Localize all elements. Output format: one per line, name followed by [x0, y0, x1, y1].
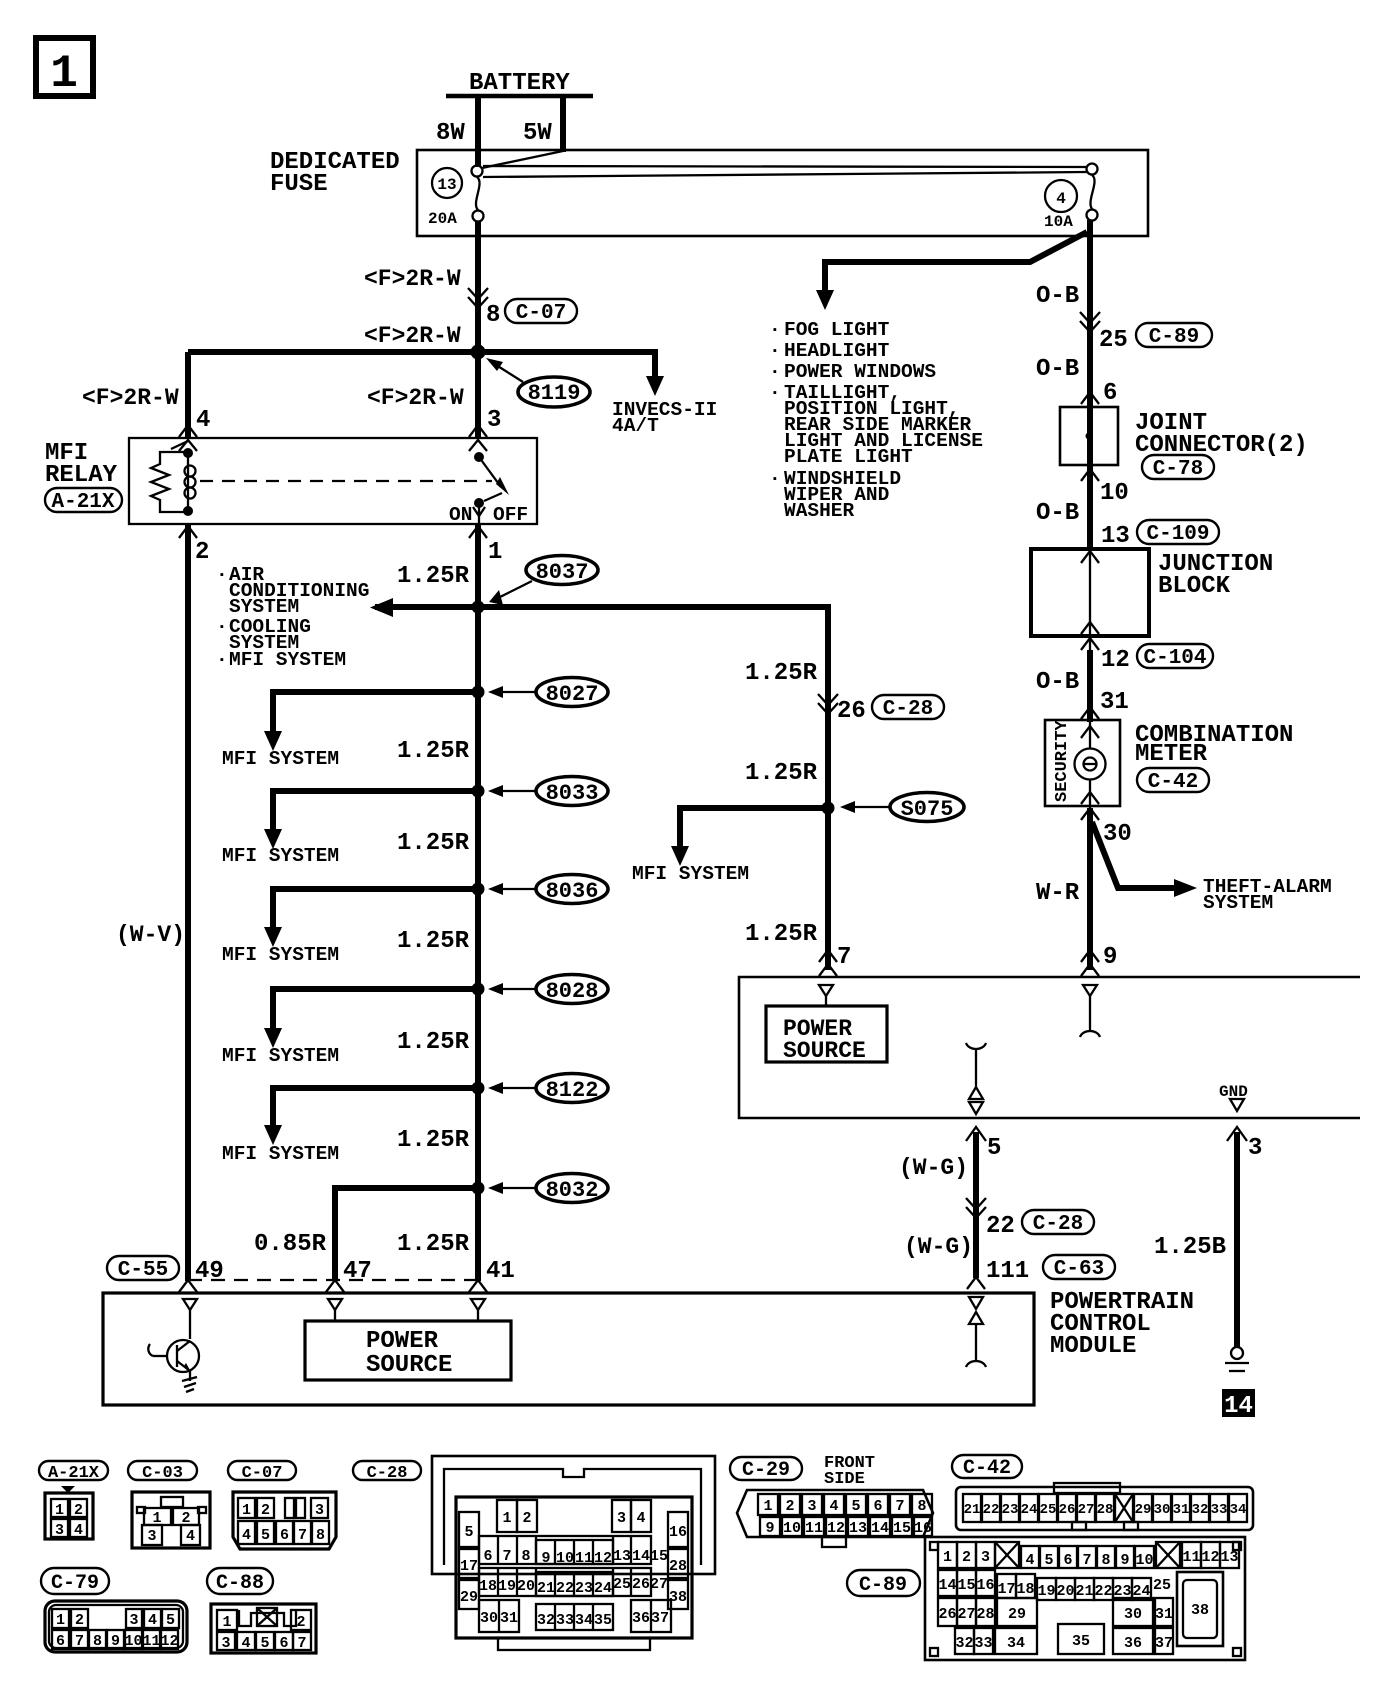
svg-text:2: 2 — [522, 1510, 531, 1527]
svg-text:17: 17 — [997, 1581, 1015, 1598]
svg-text:34: 34 — [575, 1612, 593, 1629]
svg-text:33: 33 — [974, 1635, 992, 1652]
svg-text:7: 7 — [837, 944, 851, 971]
connector label C-88 — [207, 1568, 273, 1595]
svg-text:25: 25 — [1040, 1502, 1057, 1518]
svg-text:10: 10 — [783, 1520, 801, 1537]
C-55 connector dashed line — [188, 1279, 478, 1281]
svg-text:2: 2 — [785, 1498, 794, 1515]
svg-text:7: 7 — [298, 1527, 307, 1544]
MFI relay U1 box — [129, 438, 537, 524]
svg-text:C-03: C-03 — [142, 1464, 183, 1483]
svg-text:1.25R: 1.25R — [397, 738, 470, 765]
node S028 branch — [222, 975, 608, 1068]
svg-text:<F>2R-W: <F>2R-W — [82, 385, 179, 411]
svg-text:8027: 8027 — [546, 682, 599, 707]
svg-text:12: 12 — [1201, 1549, 1219, 1566]
node S033 branch — [222, 777, 608, 868]
svg-text:31: 31 — [1100, 689, 1129, 716]
dedicated fuse box — [417, 150, 1148, 236]
svg-text:17: 17 — [460, 1558, 478, 1575]
svg-text:9: 9 — [111, 1633, 120, 1650]
wire W-V relay pin2 to C-55 pin 49 — [185, 524, 191, 1281]
connector label C-63 — [1043, 1255, 1115, 1281]
svg-text:10: 10 — [1100, 480, 1129, 507]
svg-text:1.25R: 1.25R — [397, 928, 470, 955]
svg-text:O-B: O-B — [1036, 283, 1079, 310]
svg-text:5: 5 — [464, 1524, 473, 1541]
wire battery 8W — [475, 96, 481, 167]
svg-text:22: 22 — [983, 1502, 1000, 1518]
svg-text:14: 14 — [938, 1577, 956, 1594]
svg-text:(W-V): (W-V) — [116, 922, 185, 948]
splice S037 — [489, 556, 598, 606]
power source inner box lower — [305, 1321, 511, 1380]
svg-text:1.25R: 1.25R — [397, 563, 470, 590]
svg-text:C-78: C-78 — [1153, 458, 1203, 481]
svg-text:PLATE LIGHT: PLATE LIGHT — [784, 446, 913, 468]
svg-text:C-07: C-07 — [516, 302, 566, 325]
svg-text:1.25R: 1.25R — [397, 1029, 470, 1056]
svg-text:3: 3 — [981, 1549, 990, 1566]
svg-text:O-B: O-B — [1036, 500, 1079, 527]
node S032 branch to pin 47 — [254, 1174, 608, 1282]
svg-text:35: 35 — [1072, 1633, 1090, 1650]
svg-text:3: 3 — [617, 1510, 626, 1527]
svg-text:28: 28 — [1097, 1502, 1114, 1518]
svg-text:8122: 8122 — [546, 1078, 599, 1103]
svg-text:7: 7 — [895, 1498, 904, 1515]
node S027 branch — [222, 678, 608, 771]
svg-text:23: 23 — [575, 1580, 593, 1597]
svg-text:32: 32 — [1192, 1502, 1209, 1518]
svg-text:1.25R: 1.25R — [745, 921, 818, 948]
svg-text:3: 3 — [315, 1502, 324, 1519]
svg-text:POWER: POWER — [366, 1328, 439, 1355]
svg-text:MFI SYSTEM: MFI SYSTEM — [632, 863, 749, 885]
svg-text:SOURCE: SOURCE — [366, 1352, 452, 1379]
svg-text:10: 10 — [556, 1550, 574, 1567]
wire 2R-W to relay pin 3 — [475, 352, 481, 438]
connector label C-109 — [1137, 520, 1219, 546]
node main power bus — [188, 349, 655, 355]
powertrain control module box — [103, 1293, 1034, 1405]
svg-text:10A: 10A — [1044, 213, 1073, 231]
svg-text:C-63: C-63 — [1054, 1258, 1104, 1281]
wire O-B junction block to meter — [1087, 650, 1093, 722]
svg-text:30: 30 — [1103, 821, 1132, 848]
svg-text:111: 111 — [986, 1258, 1029, 1285]
svg-text:·: · — [769, 468, 781, 490]
wire branch to INVECS — [652, 349, 658, 380]
pin 6 caret — [1081, 392, 1099, 404]
relay coil — [185, 466, 196, 499]
svg-text:7: 7 — [297, 1635, 306, 1652]
bus bar link 5W to fuse 13 — [482, 151, 563, 168]
svg-text:RELAY: RELAY — [45, 462, 118, 489]
joint connector box — [1060, 407, 1118, 465]
svg-text:34: 34 — [1230, 1502, 1247, 1518]
svg-text:FOG LIGHT: FOG LIGHT — [784, 319, 890, 341]
pin 10 caret — [1081, 469, 1099, 481]
svg-text:21: 21 — [537, 1580, 555, 1597]
svg-text:7: 7 — [502, 1548, 511, 1565]
svg-text:MFI SYSTEM: MFI SYSTEM — [222, 1143, 339, 1165]
svg-text:1.25R: 1.25R — [397, 1231, 470, 1258]
svg-text:3: 3 — [129, 1612, 138, 1629]
svg-text:15: 15 — [893, 1520, 911, 1537]
svg-text:·: · — [216, 564, 228, 586]
svg-text:6: 6 — [280, 1527, 289, 1544]
svg-text:<F>2R-W: <F>2R-W — [367, 385, 464, 411]
svg-text:11: 11 — [142, 1633, 160, 1650]
svg-text:1.25R: 1.25R — [397, 1127, 470, 1154]
svg-text:HEADLIGHT: HEADLIGHT — [784, 340, 890, 362]
svg-text:8028: 8028 — [546, 979, 599, 1004]
connector label C-89 — [1136, 323, 1212, 349]
svg-text:8: 8 — [486, 302, 500, 329]
svg-text:7: 7 — [1082, 1552, 1091, 1569]
combination meter security box — [1045, 720, 1120, 806]
svg-text:C-28: C-28 — [367, 1464, 408, 1483]
svg-text:·: · — [769, 319, 781, 341]
svg-text:C-28: C-28 — [1033, 1213, 1083, 1236]
svg-text:12: 12 — [594, 1550, 612, 1567]
svg-text:11: 11 — [575, 1550, 593, 1567]
svg-text:13: 13 — [1101, 523, 1130, 550]
svg-text:C-29: C-29 — [742, 1459, 790, 1482]
relay switch — [449, 440, 528, 526]
connector label C-07 — [228, 1461, 296, 1483]
connector C-55 row — [107, 1256, 179, 1282]
svg-text:·: · — [769, 382, 781, 404]
svg-text:C-89: C-89 — [1149, 326, 1199, 349]
transistor Q1 — [148, 1340, 199, 1392]
svg-text:SECURITY: SECURITY — [1053, 720, 1072, 802]
svg-text:5: 5 — [260, 1635, 269, 1652]
svg-text:FUSE: FUSE — [270, 171, 328, 198]
svg-text:37: 37 — [1155, 1635, 1173, 1652]
svg-text:C-07: C-07 — [242, 1464, 283, 1483]
svg-text:BLOCK: BLOCK — [1158, 573, 1231, 600]
svg-text:3: 3 — [807, 1498, 816, 1515]
svg-text:8: 8 — [521, 1548, 530, 1565]
svg-text:29: 29 — [1008, 1606, 1026, 1623]
svg-text:4: 4 — [636, 1510, 645, 1527]
svg-text:6: 6 — [56, 1633, 65, 1650]
svg-text:8037: 8037 — [536, 560, 589, 585]
connector C-42 pinout — [956, 1483, 1253, 1530]
connector C-07 crossing — [468, 288, 488, 308]
svg-text:·: · — [216, 616, 228, 638]
svg-text:A-21X: A-21X — [51, 491, 114, 514]
branch to theft-alarm — [1092, 822, 1176, 888]
fuse 13 element — [472, 166, 484, 222]
svg-text:4: 4 — [829, 1498, 838, 1515]
svg-text:29: 29 — [460, 1589, 478, 1606]
svg-text:9: 9 — [1103, 944, 1117, 971]
svg-text:WASHER: WASHER — [784, 500, 855, 522]
connector C-89 crossing — [1080, 312, 1100, 332]
svg-text:1: 1 — [943, 1549, 952, 1566]
svg-text:31: 31 — [1173, 1502, 1190, 1518]
connector C-29 pinout — [737, 1490, 933, 1547]
svg-text:29: 29 — [1135, 1502, 1152, 1518]
svg-text:O-B: O-B — [1036, 356, 1079, 383]
svg-text:23: 23 — [1002, 1502, 1019, 1518]
svg-text:3: 3 — [221, 1635, 230, 1652]
svg-text:OFF: OFF — [493, 504, 528, 526]
svg-text:2: 2 — [75, 1612, 84, 1629]
svg-text:BATTERY: BATTERY — [469, 70, 570, 97]
svg-text:MFI SYSTEM: MFI SYSTEM — [222, 944, 339, 966]
svg-text:4: 4 — [1025, 1552, 1034, 1569]
svg-text:24: 24 — [1021, 1502, 1038, 1518]
svg-text:20: 20 — [517, 1578, 535, 1595]
C-28 left/right columns — [459, 1512, 479, 1547]
connector label A-21X — [39, 1461, 108, 1483]
svg-text:C-89: C-89 — [859, 1574, 907, 1597]
svg-text:5: 5 — [166, 1612, 175, 1629]
svg-text:1: 1 — [242, 1502, 251, 1519]
svg-text:POWER WINDOWS: POWER WINDOWS — [784, 361, 936, 383]
svg-text:12: 12 — [160, 1633, 178, 1650]
power source inner box upper — [766, 1006, 887, 1064]
svg-text:14: 14 — [632, 1548, 650, 1565]
svg-text:6: 6 — [483, 1548, 492, 1565]
svg-text:16: 16 — [976, 1577, 994, 1594]
svg-text:26: 26 — [938, 1606, 956, 1623]
svg-text:8: 8 — [917, 1498, 926, 1515]
svg-text:14: 14 — [1224, 1393, 1253, 1420]
svg-text:12: 12 — [1101, 647, 1130, 674]
pin 9 terminal — [1080, 985, 1100, 1037]
svg-text:41: 41 — [486, 1258, 515, 1285]
connector C-03 pinout — [132, 1492, 210, 1548]
wire battery 5W — [560, 96, 566, 152]
svg-text:16: 16 — [669, 1524, 687, 1541]
pin 49 terminal — [183, 1299, 197, 1339]
svg-text:6: 6 — [1103, 380, 1117, 407]
page number box 1 — [36, 38, 93, 100]
svg-text:8W: 8W — [436, 120, 465, 147]
wire through junction block — [1089, 549, 1091, 720]
wire W-R down to pin 9 — [1087, 808, 1093, 970]
connector label C-42 — [1137, 768, 1209, 794]
svg-text:13: 13 — [613, 1548, 631, 1565]
svg-text:27: 27 — [957, 1606, 975, 1623]
svg-text:24: 24 — [594, 1580, 612, 1597]
svg-text:5: 5 — [851, 1498, 860, 1515]
svg-text:18: 18 — [1016, 1581, 1034, 1598]
svg-text:·: · — [769, 340, 781, 362]
svg-text:11: 11 — [805, 1520, 823, 1537]
svg-text:2: 2 — [74, 1502, 83, 1519]
node S075 branch — [632, 793, 964, 886]
svg-text:(W-G): (W-G) — [899, 1155, 968, 1181]
internal connector symbol — [966, 1043, 986, 1114]
svg-text:5: 5 — [1044, 1552, 1053, 1569]
connector C-28 crossing pin 22 — [966, 1198, 986, 1218]
svg-text:22: 22 — [986, 1213, 1015, 1240]
svg-text:20: 20 — [1056, 1583, 1074, 1600]
accessory load list — [769, 319, 983, 522]
page ref 14 — [1222, 1389, 1255, 1420]
svg-text:12: 12 — [827, 1520, 845, 1537]
connector C-79 pinout — [45, 1601, 187, 1652]
connector C-28 pinout — [432, 1456, 715, 1650]
svg-text:MODULE: MODULE — [1050, 1333, 1136, 1360]
svg-text:3: 3 — [487, 407, 501, 434]
svg-text:27: 27 — [650, 1576, 668, 1593]
pin 41 terminal — [471, 1299, 485, 1321]
svg-text:3: 3 — [1248, 1135, 1262, 1162]
svg-text:<F>2R-W: <F>2R-W — [364, 266, 461, 292]
svg-text:4: 4 — [241, 1635, 250, 1652]
svg-text:6: 6 — [1063, 1552, 1072, 1569]
wire 1.25R middle column — [825, 607, 828, 970]
svg-text:O-B: O-B — [1036, 669, 1079, 696]
svg-text:20A: 20A — [428, 210, 457, 228]
svg-text:22: 22 — [556, 1580, 574, 1597]
svg-text:3: 3 — [147, 1528, 156, 1545]
arrow to accessory list — [816, 290, 834, 310]
svg-text:1: 1 — [152, 1510, 161, 1527]
bus bar to fuse 4 — [483, 166, 1087, 167]
wire 2R-W fuse 13 down — [475, 221, 481, 352]
connector label C-89 — [847, 1570, 920, 1597]
svg-text:6: 6 — [279, 1635, 288, 1652]
connector label C-03 — [128, 1461, 197, 1483]
svg-text:S075: S075 — [901, 797, 954, 822]
svg-text:30: 30 — [480, 1610, 498, 1627]
svg-text:METER: METER — [1135, 741, 1208, 768]
relay pin 2 — [179, 526, 197, 538]
svg-text:25: 25 — [1153, 1577, 1171, 1594]
svg-text:8: 8 — [93, 1633, 102, 1650]
svg-text:10: 10 — [1135, 1552, 1153, 1569]
svg-text:1: 1 — [488, 539, 502, 566]
C-28 row 2 — [479, 1536, 651, 1564]
svg-text:30: 30 — [1154, 1502, 1171, 1518]
svg-text:37: 37 — [651, 1610, 669, 1627]
svg-text:C-79: C-79 — [51, 1572, 99, 1595]
junction block power source box — [739, 977, 1360, 1118]
fuse 4 element — [1087, 164, 1098, 221]
svg-text:1: 1 — [502, 1510, 511, 1527]
pin 9 caret — [1081, 950, 1099, 962]
connector label C-28 — [353, 1461, 421, 1483]
svg-text:8: 8 — [316, 1527, 325, 1544]
svg-text:21: 21 — [964, 1502, 981, 1518]
svg-text:1: 1 — [55, 1502, 64, 1519]
svg-text:0.85R: 0.85R — [254, 1231, 327, 1258]
relay coil branch — [171, 440, 197, 516]
svg-text:8: 8 — [1101, 1552, 1110, 1569]
svg-text:1.25R: 1.25R — [745, 660, 818, 687]
svg-text:5: 5 — [261, 1527, 270, 1544]
connector A-21X pinout — [45, 1486, 93, 1539]
wire relay pin1 down — [475, 524, 481, 1281]
connector C-88 pinout — [211, 1604, 316, 1653]
svg-text:31: 31 — [500, 1610, 518, 1627]
svg-text:25: 25 — [613, 1576, 631, 1593]
connector C-07 pinout — [233, 1492, 336, 1549]
svg-text:5W: 5W — [523, 120, 552, 147]
svg-text:14: 14 — [871, 1520, 889, 1537]
svg-text:19: 19 — [1037, 1583, 1055, 1600]
wire O-B from fuse 4 down — [1087, 220, 1093, 550]
svg-text:W-R: W-R — [1036, 880, 1080, 907]
pin 7 caret — [819, 950, 837, 962]
connector C-89 pinout — [925, 1537, 1245, 1660]
svg-text:1.25B: 1.25B — [1154, 1234, 1226, 1261]
svg-text:MFI SYSTEM: MFI SYSTEM — [222, 1045, 339, 1067]
svg-text:MFI SYSTEM: MFI SYSTEM — [222, 748, 339, 770]
svg-text:4: 4 — [74, 1522, 83, 1539]
pin 7 terminal — [819, 985, 833, 1006]
svg-text:4: 4 — [186, 1528, 195, 1545]
pin 47 terminal — [328, 1299, 342, 1321]
wire branch to fog light etc — [825, 232, 1087, 294]
C-28 row 3 — [479, 1568, 651, 1596]
svg-text:33: 33 — [1211, 1502, 1228, 1518]
AC system list — [216, 564, 369, 671]
svg-text:15: 15 — [957, 1577, 975, 1594]
fuse 13 designator — [428, 168, 462, 228]
svg-text:C-109: C-109 — [1146, 523, 1209, 546]
connector label C-104 — [1137, 644, 1213, 670]
svg-text:C-42: C-42 — [963, 1457, 1011, 1480]
svg-text:31: 31 — [1155, 1606, 1173, 1623]
svg-text:36: 36 — [632, 1610, 650, 1627]
svg-text:C-28: C-28 — [883, 698, 933, 721]
svg-text:MFI SYSTEM: MFI SYSTEM — [229, 649, 346, 671]
svg-text:C-42: C-42 — [1148, 771, 1198, 794]
pin 31 caret — [1081, 707, 1099, 719]
svg-text:8033: 8033 — [546, 781, 599, 806]
svg-text:26: 26 — [632, 1576, 650, 1593]
svg-text:18: 18 — [479, 1578, 497, 1595]
svg-text:1: 1 — [763, 1498, 772, 1515]
C-28 row 1 — [497, 1500, 517, 1532]
svg-text:A-21X: A-21X — [48, 1464, 100, 1483]
ground — [1225, 1347, 1249, 1371]
svg-text:19: 19 — [498, 1578, 516, 1595]
svg-text:30: 30 — [1124, 1606, 1142, 1623]
svg-text:10: 10 — [124, 1633, 142, 1650]
svg-text:32: 32 — [537, 1612, 555, 1629]
wire 1.25B pin 3 to ground — [1227, 1127, 1247, 1141]
svg-text:7: 7 — [75, 1633, 84, 1650]
svg-text:2: 2 — [261, 1502, 270, 1519]
svg-text:SYSTEM: SYSTEM — [229, 596, 299, 618]
connector label C-42 — [952, 1455, 1022, 1480]
svg-text:C-104: C-104 — [1143, 647, 1206, 670]
svg-text:4: 4 — [1056, 190, 1066, 208]
wire W-G pin 5 — [966, 1127, 986, 1141]
svg-text:13: 13 — [437, 176, 456, 194]
svg-text:32: 32 — [955, 1635, 973, 1652]
svg-text:4A/T: 4A/T — [612, 415, 659, 437]
svg-text:11: 11 — [1182, 1549, 1200, 1566]
pin 30 caret — [1081, 808, 1099, 820]
svg-text:2: 2 — [181, 1510, 190, 1527]
svg-text:5: 5 — [987, 1135, 1001, 1162]
svg-text:26: 26 — [837, 698, 866, 725]
connector C-28 crossing pin 26 — [818, 694, 838, 714]
svg-text:25: 25 — [1099, 327, 1128, 354]
